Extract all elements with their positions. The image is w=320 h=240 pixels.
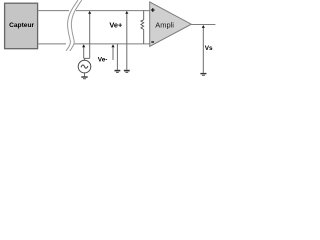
svg-text:Ve+: Ve+ xyxy=(109,20,123,29)
svg-text:Capteur: Capteur xyxy=(9,22,34,29)
svg-text:Vs: Vs xyxy=(205,45,213,52)
svg-text:Ve-: Ve- xyxy=(98,57,108,64)
svg-text:Ampli: Ampli xyxy=(155,21,174,30)
